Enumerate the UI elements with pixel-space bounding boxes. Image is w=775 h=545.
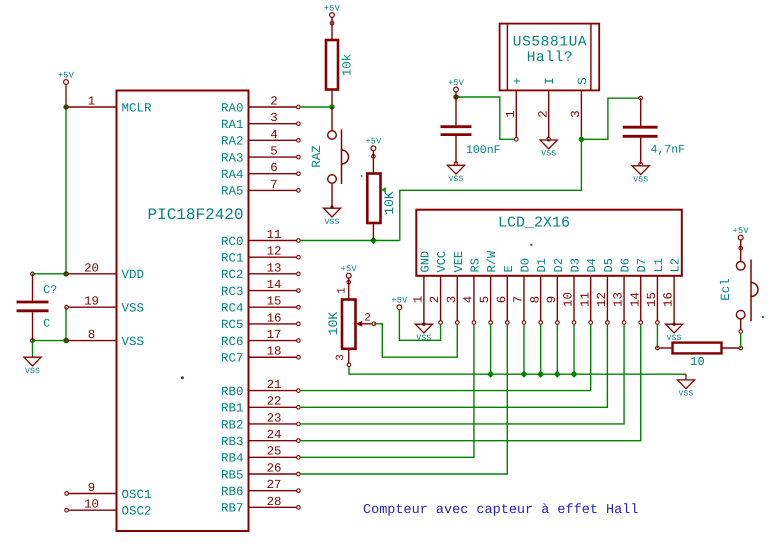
svg-text:4: 4	[462, 296, 476, 303]
svg-text:VDD: VDD	[122, 268, 145, 282]
svg-text:VSS: VSS	[541, 150, 556, 159]
svg-text:24: 24	[267, 428, 282, 442]
svg-text:+5V: +5V	[391, 296, 408, 306]
DS1 pin 8 D1	[528, 258, 549, 324]
U1 pin 20 VDD	[65, 261, 144, 282]
capacitor C? (decoupling, value C)	[17, 272, 58, 342]
svg-text:22: 22	[267, 395, 282, 409]
stray mark near Ecl	[762, 316, 764, 318]
svg-text:+5V: +5V	[341, 264, 358, 274]
svg-text:25: 25	[267, 445, 282, 459]
wire RB3 to LCD pin 14 D7	[300, 324, 641, 440]
wire VSS pin19 to VSS pin8	[65, 307, 67, 340]
U1 pin 28 RB7	[221, 495, 300, 516]
svg-text:RB6: RB6	[221, 485, 244, 499]
svg-text:+5V: +5V	[324, 3, 341, 13]
svg-text:RA5: RA5	[221, 185, 244, 199]
svg-text:4: 4	[270, 128, 277, 142]
svg-text:OSC1: OSC1	[122, 488, 152, 502]
wire +5V to hall pin 1	[456, 97, 515, 139]
U2 pin 1 +	[504, 77, 525, 141]
svg-text:VEE: VEE	[452, 251, 466, 273]
svg-text:VSS: VSS	[122, 335, 145, 349]
wire LCD pin 5 to ground bus	[490, 324, 492, 374]
svg-text:RB1: RB1	[221, 402, 244, 416]
svg-text:17: 17	[267, 328, 282, 342]
svg-text:RB0: RB0	[221, 385, 244, 399]
svg-text:RB3: RB3	[221, 435, 244, 449]
svg-text:20: 20	[84, 261, 99, 275]
wire RB0 to LCD pin 11 D4	[300, 324, 591, 390]
power +5V (RV1 top)	[365, 137, 382, 151]
U1 pin 16 RC5	[221, 311, 300, 332]
resistor R1 10k	[326, 17, 355, 108]
svg-text:L1: L1	[652, 258, 666, 272]
ground VSS (ground bus)	[677, 374, 694, 398]
wire C? top to VDD pin	[33, 273, 67, 275]
svg-text:I: I	[543, 77, 557, 85]
svg-text:10: 10	[84, 498, 99, 512]
DS1 pin 5 R/W	[478, 250, 499, 324]
svg-text:Ecl: Ecl	[719, 278, 733, 301]
junction ground bus pin 7	[520, 371, 527, 378]
U1 pin 14 RC3	[221, 278, 300, 299]
svg-text:8: 8	[88, 328, 95, 342]
U1 pin 27 RB6	[221, 478, 300, 499]
junction at RV1 bottom	[370, 237, 377, 244]
svg-text:3: 3	[445, 296, 459, 303]
svg-text:OSC2: OSC2	[122, 505, 152, 519]
svg-text:Hall?: Hall?	[527, 50, 574, 66]
svg-text:RA2: RA2	[221, 135, 244, 149]
wire LCD pin 9 to ground bus	[556, 324, 558, 374]
U1 pin 25 RB4	[221, 445, 300, 466]
power +5V (LCD VCC)	[391, 296, 408, 310]
DS1 pin 2 VCC	[428, 251, 449, 324]
svg-text:12: 12	[595, 292, 609, 307]
svg-text:+5V: +5V	[365, 137, 382, 147]
push button SW2 Ecl	[719, 240, 758, 333]
power +5V (Ecl)	[733, 226, 750, 240]
svg-text:3: 3	[270, 111, 277, 125]
svg-text:GND: GND	[418, 251, 432, 273]
capacitor C3 4,7nF	[623, 96, 685, 166]
stray mark near RAZ	[361, 175, 363, 177]
junction ground bus pin 5	[487, 371, 494, 378]
svg-text:RS: RS	[468, 258, 482, 272]
svg-text:RA3: RA3	[221, 151, 244, 165]
svg-text:RC0: RC0	[221, 235, 244, 249]
U1 pin 5 RA3	[221, 144, 300, 165]
U2 pin 2 I	[537, 77, 558, 141]
svg-text:10k: 10k	[341, 54, 355, 77]
wire C? bottom to VSS pin8	[33, 340, 67, 342]
svg-text:100nF: 100nF	[466, 144, 501, 157]
DS1 pin 6 E	[495, 265, 516, 324]
DS1 pin 16 L2	[662, 258, 683, 323]
svg-text:D0: D0	[518, 258, 532, 272]
svg-text:D4: D4	[585, 258, 599, 272]
svg-text:10: 10	[562, 292, 576, 307]
svg-text:D6: D6	[619, 258, 633, 272]
U1 pin 18 RC7	[221, 345, 300, 366]
svg-text:14: 14	[628, 292, 642, 307]
potentiometer RV1 10K	[367, 151, 397, 241]
junction ground bus pin 10	[570, 371, 577, 378]
svg-text:VSS: VSS	[324, 218, 339, 227]
svg-text:6: 6	[495, 296, 509, 303]
power pin stub +5V to MCLR node	[65, 84, 67, 107]
junction at MCLR node	[63, 104, 68, 109]
wire +5V to LCD VCC pin 2	[399, 310, 440, 341]
svg-text:3: 3	[335, 354, 347, 361]
svg-text:16: 16	[267, 311, 282, 325]
display DS1 LCD_2X16 body	[416, 210, 682, 276]
DS1 pin 9 D2	[545, 258, 566, 324]
svg-text:+5V: +5V	[448, 78, 465, 88]
U1 pin 26 RB5	[221, 461, 300, 482]
svg-text:RC2: RC2	[221, 268, 244, 282]
svg-text:21: 21	[267, 378, 282, 392]
U1 pin 17 RC6	[221, 328, 300, 349]
svg-text:16: 16	[662, 292, 676, 307]
svg-text:19: 19	[84, 295, 99, 309]
svg-text:+: +	[511, 77, 525, 85]
svg-text:LCD_2X16: LCD_2X16	[498, 215, 570, 232]
svg-text:9: 9	[545, 296, 559, 303]
power +5V (RV2 top)	[341, 264, 358, 278]
svg-text:VSS: VSS	[678, 390, 693, 399]
ground VSS (LCD pin 1)	[415, 323, 432, 343]
svg-text:VSS: VSS	[25, 367, 40, 376]
stray mark near LCD label	[530, 244, 532, 246]
U1 pin 15 RC4	[221, 295, 300, 316]
svg-text:+5V: +5V	[733, 226, 750, 236]
capacitor C2 100nF	[441, 95, 501, 165]
svg-text:12: 12	[267, 245, 282, 259]
svg-text:MCLR: MCLR	[122, 101, 153, 115]
svg-text:14: 14	[267, 278, 282, 292]
U1 pin 19 VSS	[65, 295, 144, 316]
DS1 pin 7 D0	[512, 258, 533, 324]
svg-text:D7: D7	[635, 258, 649, 272]
DS1 pin 14 D7	[628, 258, 649, 324]
svg-text:D3: D3	[569, 258, 583, 272]
wire RA0 to R1/RAZ node	[300, 106, 332, 108]
U1 pin 21 RB0	[221, 378, 300, 399]
svg-text:15: 15	[645, 292, 659, 307]
svg-text:RA0: RA0	[221, 101, 244, 115]
ground VSS (LCD pin 16)	[666, 323, 683, 343]
DS1 pin 3 VEE	[445, 251, 466, 324]
svg-text:2: 2	[537, 110, 551, 117]
U1 pin 2 RA0	[221, 94, 300, 115]
svg-text:11: 11	[578, 292, 592, 307]
svg-text:3: 3	[569, 110, 583, 117]
svg-text:Compteur avec capteur à effet: Compteur avec capteur à effet Hall	[363, 503, 638, 518]
svg-text:+5V: +5V	[58, 70, 75, 80]
svg-text:D2: D2	[552, 258, 566, 272]
U1 pin 12 RC1	[221, 245, 300, 266]
svg-text:RB7: RB7	[221, 502, 244, 516]
svg-text:2: 2	[428, 296, 442, 303]
svg-text:7: 7	[512, 296, 526, 303]
svg-text:2: 2	[364, 312, 371, 324]
svg-text:C?: C?	[43, 284, 57, 297]
svg-text:D5: D5	[602, 258, 616, 272]
svg-text:27: 27	[267, 478, 282, 492]
svg-text:10K: 10K	[326, 312, 341, 336]
junction ground bus pin 8	[537, 371, 544, 378]
svg-text:RB4: RB4	[221, 452, 244, 466]
svg-text:6: 6	[270, 161, 277, 175]
svg-text:RAZ: RAZ	[310, 145, 324, 168]
wire RV2 wiper to LCD VEE pin 3	[374, 324, 457, 357]
DS1 pin 12 D5	[595, 258, 616, 324]
U1 pin 13 RC2	[221, 261, 300, 282]
svg-text:13: 13	[267, 261, 282, 275]
DS1 pin 13 D6	[612, 258, 633, 324]
DS1 pin 4 RS	[462, 258, 483, 324]
svg-text:23: 23	[267, 411, 282, 425]
junction at VDD	[63, 271, 68, 276]
wire RV1 node to hall sensor output	[400, 139, 582, 240]
hall sensor U2 US5881UA body	[500, 24, 600, 91]
microcontroller U1 PIC18F2420 body	[117, 91, 249, 532]
wire RB4 to LCD pin 4 RS	[300, 324, 474, 457]
wire RB2 to LCD pin 13 D6	[300, 324, 624, 424]
wire Ecl to R2 right	[740, 333, 742, 348]
DS1 pin 1 GND	[412, 251, 433, 323]
DS1 pin 10 D3	[562, 258, 583, 324]
svg-text:4,7nF: 4,7nF	[651, 144, 686, 157]
svg-text:C: C	[43, 317, 50, 330]
svg-text:R/W: R/W	[485, 250, 499, 272]
U1 pin 11 RC0	[221, 228, 300, 249]
junction at 100nF top	[453, 94, 458, 99]
wire LCD pin 10 to ground bus	[573, 324, 575, 374]
svg-text:VSS: VSS	[448, 175, 463, 184]
wire LCD pin 7 to ground bus	[523, 324, 525, 374]
U1 pin 7 RA5	[221, 178, 300, 199]
svg-text:RC1: RC1	[221, 251, 244, 265]
wire RB5 to LCD pin 6 E	[300, 324, 507, 474]
wire hall pin 3 to 4,7nF	[581, 98, 639, 139]
svg-text:18: 18	[267, 345, 282, 359]
junction ground bus pin 9	[554, 371, 561, 378]
ground VSS (below 100nF)	[447, 165, 464, 184]
svg-text:15: 15	[267, 295, 282, 309]
push button SW1 RAZ	[310, 107, 349, 209]
svg-text:S: S	[576, 77, 590, 85]
wire LCD L1 pin 15 to R2	[656, 324, 658, 348]
U1 pin 6 RA4	[221, 161, 300, 182]
stray mark near IC	[181, 376, 184, 379]
svg-text:L2: L2	[669, 258, 683, 272]
U1 pin 1 MCLR	[65, 94, 152, 115]
wire LCD pin 8 to ground bus	[540, 324, 542, 374]
ground VSS (below 4,7nF)	[632, 166, 649, 185]
svg-text:13: 13	[612, 292, 626, 307]
svg-text:1: 1	[412, 296, 426, 303]
wire C? bottom to ground	[32, 341, 34, 358]
junction at VSS8 node	[63, 338, 68, 343]
U1 pin 10 OSC2	[65, 498, 152, 519]
svg-text:RC7: RC7	[221, 352, 244, 366]
U1 pin 23 RB2	[221, 411, 300, 432]
svg-text:1: 1	[88, 94, 95, 108]
power +5V (R1 top)	[324, 3, 341, 17]
U1 pin 22 RB1	[221, 395, 300, 416]
svg-text:28: 28	[267, 495, 282, 509]
svg-text:RB5: RB5	[221, 468, 244, 482]
junction at RA0 node	[329, 104, 334, 109]
svg-text:10K: 10K	[382, 191, 397, 215]
ground VSS (below RAZ)	[323, 208, 340, 227]
svg-text:5: 5	[270, 144, 277, 158]
U1 pin 8 VSS	[65, 328, 144, 349]
ground VSS (hall pin 2)	[540, 140, 557, 159]
svg-text:RA4: RA4	[221, 168, 244, 182]
svg-text:26: 26	[267, 461, 282, 475]
svg-text:5: 5	[478, 296, 492, 303]
svg-text:VSS: VSS	[633, 175, 648, 184]
wire RV2 bottom to ground bus	[349, 367, 686, 375]
power +5V (hall supply)	[448, 78, 465, 97]
svg-text:RC5: RC5	[221, 318, 244, 332]
svg-text:2: 2	[270, 94, 277, 108]
svg-text:8: 8	[528, 296, 542, 303]
svg-text:RC3: RC3	[221, 285, 244, 299]
svg-text:1: 1	[337, 287, 349, 294]
svg-text:RC4: RC4	[221, 302, 244, 316]
svg-text:VSS: VSS	[122, 302, 145, 316]
svg-text:D1: D1	[535, 258, 549, 272]
svg-text:RC6: RC6	[221, 335, 244, 349]
power +5V (MCLR pull-up rail)	[58, 70, 75, 84]
U1 pin 3 RA1	[221, 111, 300, 132]
ground VSS (below C?)	[24, 357, 41, 376]
svg-text:7: 7	[270, 178, 277, 192]
svg-text:RA1: RA1	[221, 118, 244, 132]
resistor R2 10	[656, 343, 743, 369]
svg-text:RB2: RB2	[221, 418, 244, 432]
potentiometer RV2 10K	[326, 278, 376, 367]
wire RB1 to LCD pin 12 D5	[300, 324, 607, 407]
DS1 pin 11 D4	[578, 258, 599, 324]
svg-text:VCC: VCC	[435, 251, 449, 273]
U2 pin 3 S	[569, 77, 590, 141]
svg-text:E: E	[502, 265, 516, 272]
wire MCLR node to VDD vertical rail	[65, 107, 67, 274]
svg-text:9: 9	[88, 481, 95, 495]
svg-text:1: 1	[504, 110, 518, 117]
svg-text:10: 10	[690, 355, 704, 369]
svg-text:US5881UA: US5881UA	[513, 35, 587, 51]
svg-text:11: 11	[267, 228, 282, 242]
DS1 pin 15 L1	[645, 258, 666, 324]
junction at hall pin 3	[579, 137, 584, 142]
U1 pin 4 RA2	[221, 128, 300, 149]
svg-text:VSS: VSS	[416, 334, 431, 343]
U1 pin 9 OSC1	[65, 481, 152, 502]
wire RC0 to RV1 bottom	[300, 240, 400, 242]
U1 pin 24 RB3	[221, 428, 300, 449]
svg-text:PIC18F2420: PIC18F2420	[147, 206, 243, 224]
